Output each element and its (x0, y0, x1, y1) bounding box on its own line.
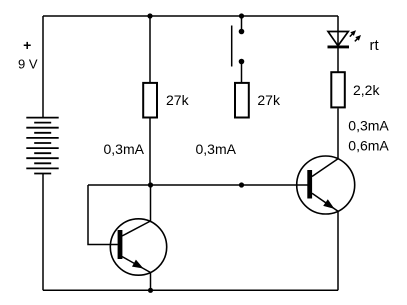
svg-text:+: + (23, 37, 31, 53)
svg-text:27k: 27k (257, 92, 281, 108)
svg-text:0,3mA: 0,3mA (196, 141, 237, 157)
svg-text:rt: rt (370, 37, 380, 54)
svg-text:9 V: 9 V (18, 56, 38, 71)
svg-text:0,3mA: 0,3mA (104, 141, 145, 157)
svg-text:2,2k: 2,2k (353, 82, 380, 98)
svg-text:0,6mA: 0,6mA (348, 138, 389, 154)
svg-text:27k: 27k (166, 92, 190, 108)
svg-text:0,3mA: 0,3mA (348, 117, 389, 133)
